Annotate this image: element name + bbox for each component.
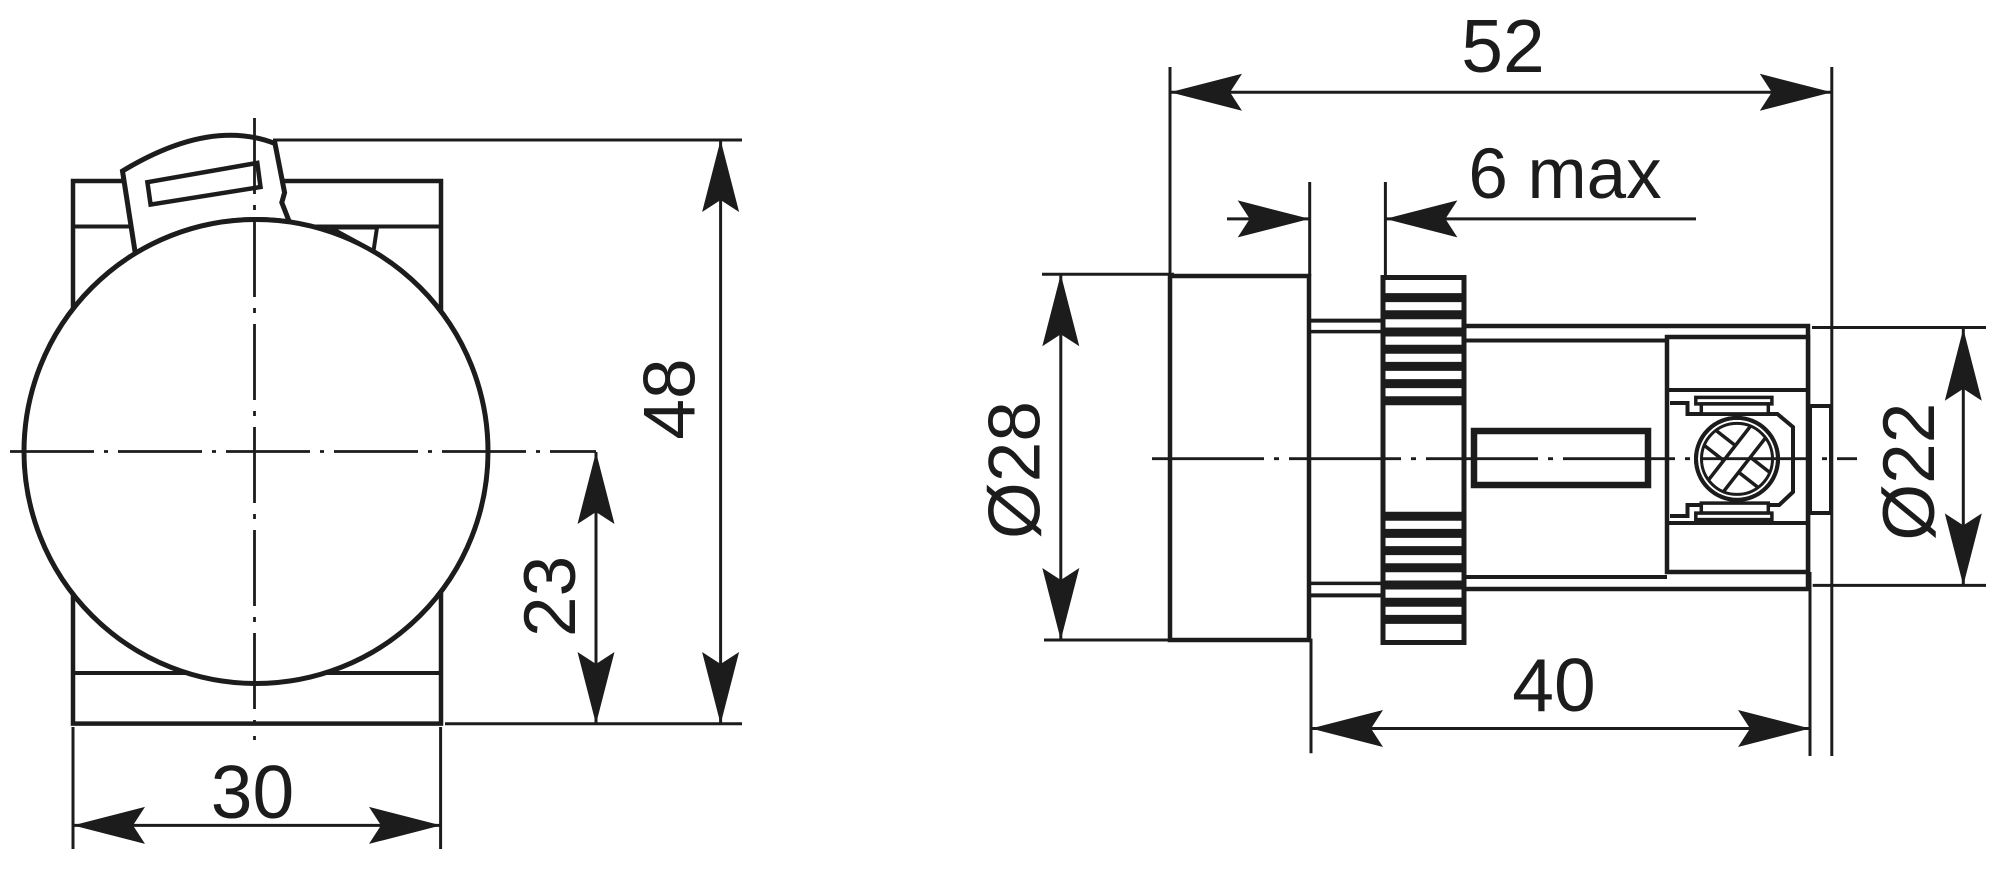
dimension 52: [1169, 67, 1172, 276]
inner cylinder bottom line: [1464, 575, 1667, 579]
clamp cage: [1670, 403, 1793, 516]
centerline horizontal: [10, 450, 596, 453]
svg-text:48: 48: [630, 358, 711, 439]
phillips cross bar 1: [1696, 424, 1779, 494]
rear mounting tab: [1810, 406, 1831, 513]
clamp bottom plate inner: [1701, 503, 1768, 513]
dimension 23: [595, 452, 598, 724]
svg-text:Ø28: Ø28: [975, 401, 1056, 539]
svg-text:Ø22: Ø22: [1869, 403, 1950, 541]
collar inner bottom: [1309, 582, 1383, 586]
clip hole: [147, 163, 260, 205]
terminal block: [1667, 337, 1808, 572]
svg-text:30: 30: [211, 750, 294, 834]
mounting body rectangle: [73, 181, 441, 724]
body outer silhouette: [1464, 326, 1808, 589]
knurl stripes top: [1383, 298, 1464, 401]
collar outer top: [1309, 319, 1383, 323]
dimension D22: [1812, 326, 1986, 329]
dimension 40: [1310, 639, 1313, 754]
inner cylinder top line: [1464, 339, 1667, 343]
screw outer circle: [1696, 418, 1778, 500]
body inner top line: [73, 225, 441, 229]
dimension 6 max: [1308, 182, 1311, 276]
clamp top plate inner: [1701, 404, 1768, 414]
knurl stripes bottom: [1383, 516, 1464, 619]
dimension D28: [1042, 273, 1174, 276]
dimension 48: [273, 139, 742, 142]
actuator shaft: [1474, 431, 1648, 485]
svg-text:52: 52: [1461, 4, 1544, 88]
button cap: [1170, 276, 1309, 640]
centerline horizontal right view: [1152, 457, 1857, 460]
clamp top plate outer: [1696, 397, 1772, 404]
snap clip (top, tilted): [123, 135, 290, 253]
knurled ring nut: [1383, 278, 1464, 643]
dimension 30: [72, 727, 75, 849]
collar outer bottom: [1309, 593, 1383, 597]
body inner bottom line: [73, 671, 441, 675]
screw inner circle: [1702, 423, 1773, 494]
phillips cross bar 2: [1702, 418, 1772, 501]
button circle: [24, 220, 488, 684]
svg-text:6 max: 6 max: [1468, 135, 1661, 214]
clamp bottom plate outer: [1696, 513, 1772, 520]
svg-text:23: 23: [510, 556, 591, 637]
centerline vertical: [253, 118, 256, 740]
right snap clip edge: [330, 228, 377, 252]
collar inner top: [1309, 330, 1383, 334]
cavity bottom line: [1667, 521, 1808, 525]
svg-text:40: 40: [1512, 643, 1595, 727]
cavity top line: [1667, 388, 1808, 392]
